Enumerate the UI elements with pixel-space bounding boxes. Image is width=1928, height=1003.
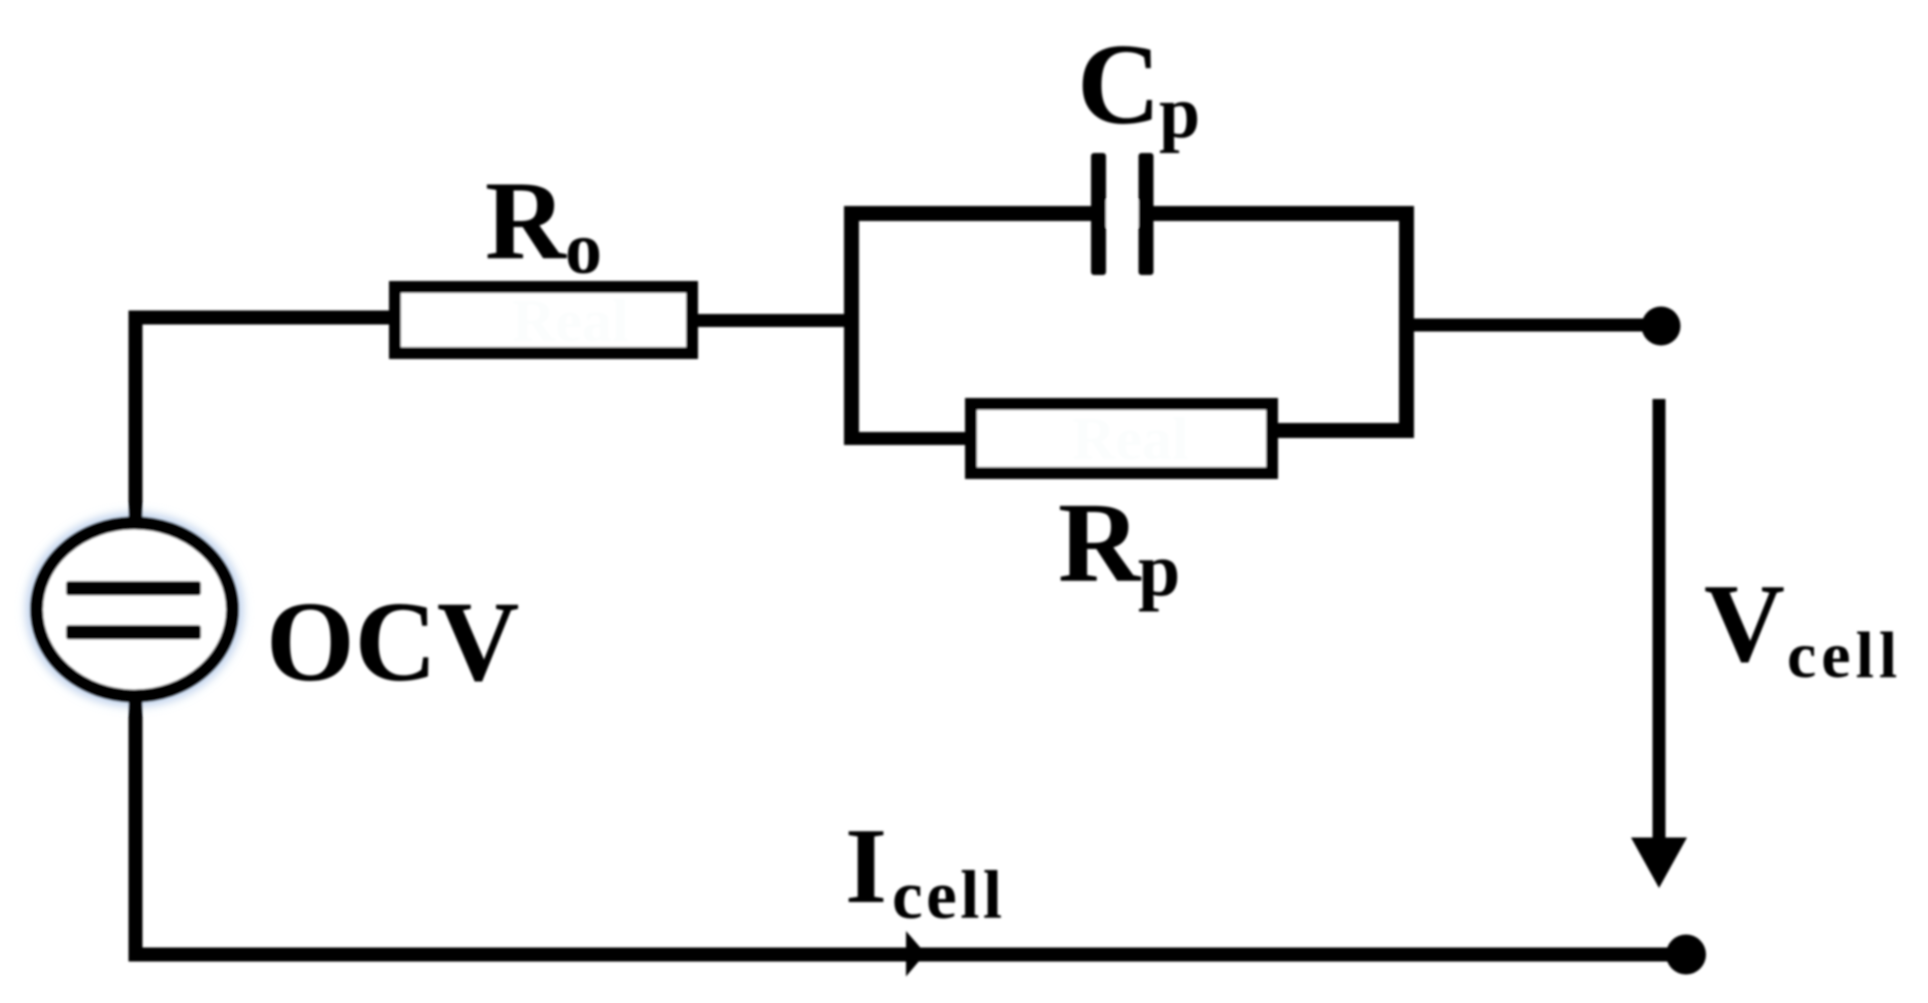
svg-text:I: I: [845, 807, 887, 926]
parallel RC block outline: left edge, top edge, right edge: [852, 214, 1407, 446]
source lower bar: [66, 625, 201, 640]
svg-text:cell: cell: [1787, 619, 1902, 692]
wire: left vertical + top horizontal to Ro: [136, 318, 393, 534]
svg-text:o: o: [565, 208, 602, 290]
svg-text:Real: Real: [512, 288, 629, 354]
svg-text:p: p: [1138, 528, 1180, 612]
capacitor Cp left plate: [1091, 153, 1106, 275]
parallel block bottom edge right segment: [1266, 423, 1414, 438]
svg-text:C: C: [1077, 21, 1161, 149]
wire: parallel block to output node: [1406, 319, 1659, 332]
wire: Ro to parallel block: [694, 314, 853, 327]
Vcell arrow head: [1631, 838, 1687, 889]
svg-text:R: R: [485, 159, 567, 283]
wire: left vertical below source + bottom horizontal: [136, 687, 1687, 955]
capacitor Cp right plate: [1139, 153, 1154, 275]
source upper bar: [66, 581, 201, 596]
node dot output top right: [1642, 307, 1681, 346]
resistor R0 body: [395, 287, 692, 353]
svg-text:OCV: OCV: [266, 578, 519, 705]
svg-text:R: R: [1058, 479, 1142, 606]
svg-text:Real: Real: [1072, 406, 1189, 472]
resistor Rp body: [971, 404, 1272, 473]
white gap between capacitor plates: [1103, 200, 1141, 227]
Vcell arrow shaft: [1653, 399, 1666, 841]
parallel block bottom edge left segment: [844, 432, 977, 445]
voltage source OCV circle: [37, 523, 233, 696]
svg-text:p: p: [1159, 72, 1200, 154]
voltage source OCV glow: [37, 523, 233, 696]
Icell arrow head: [906, 931, 926, 977]
node dot bottom right: [1666, 935, 1706, 975]
svg-text:V: V: [1704, 562, 1785, 686]
svg-text:cell: cell: [892, 857, 1006, 933]
